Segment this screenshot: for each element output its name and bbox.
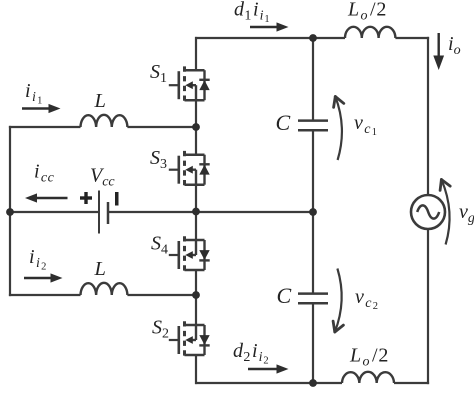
svg-text:vg: vg [459, 201, 474, 226]
svg-text:L: L [94, 258, 106, 280]
capacitor C (upper) [298, 121, 328, 131]
node B (S3-S4 junction) [192, 208, 200, 216]
wire right branch lower [427, 228, 429, 384]
wire top rail left segment [195, 37, 345, 39]
svg-text:C: C [276, 110, 291, 135]
current arrow i_i2 [24, 273, 63, 282]
wire bus S1 to node A [195, 100, 197, 127]
svg-text:icc: icc [34, 161, 55, 186]
wire bus node B to S4 [195, 212, 197, 241]
transistor S3 (MOSFET with body diode) [169, 151, 210, 189]
wire cap C1 to node E [312, 130, 314, 212]
svg-text:d1ii1: d1ii1 [234, 0, 270, 25]
battery minus tick [115, 192, 119, 206]
current arrow i_cc [25, 193, 68, 202]
svg-text:vc1: vc1 [354, 112, 378, 138]
svg-text:S3: S3 [150, 147, 167, 172]
wire bottom rail right segment [394, 382, 429, 384]
current arrow i_i1 [22, 104, 61, 113]
svg-text:ii2: ii2 [29, 246, 47, 273]
wire upper L to node A [127, 126, 196, 128]
svg-text:vc2: vc2 [355, 286, 379, 312]
wire bus node A to S3 [195, 127, 197, 155]
transistor S4 (MOSFET with body diode) [169, 236, 210, 274]
node A (S1-S3 junction) [192, 123, 200, 131]
node C (S4-S2 junction) [192, 291, 200, 299]
inductor L (lower) [81, 283, 128, 295]
capacitor C (lower) [298, 294, 328, 304]
svg-text:S4: S4 [151, 233, 168, 258]
wire bottom rail left segment [195, 382, 342, 384]
svg-text:Vcc: Vcc [90, 165, 115, 190]
wire node E to cap C2 [312, 212, 314, 294]
battery Vcc positive plate [98, 191, 100, 234]
ac source vg [411, 195, 445, 229]
wire top rail right segment [395, 37, 429, 39]
node left Vcc junction [6, 208, 14, 216]
svg-text:Lo/2: Lo/2 [347, 0, 387, 24]
voltage arrow v_c2 [333, 269, 343, 333]
wire left input lower [9, 294, 81, 296]
svg-text:io: io [448, 33, 461, 58]
wire bus S2 to bottom rail [195, 355, 197, 384]
wire Vcc right segment to node D [108, 211, 313, 213]
inductor L (upper) [81, 115, 128, 127]
wire bus S4 to node C [195, 270, 197, 295]
node bottom of capacitor leg [309, 379, 317, 387]
wire Vcc left segment [10, 211, 99, 213]
current arrow i_o [433, 33, 444, 70]
svg-text:C: C [277, 283, 292, 308]
transistor S1 (MOSFET with body diode) [169, 66, 210, 104]
wire bus node C to S2 [195, 295, 197, 325]
battery plus sign [80, 192, 92, 204]
svg-text:S1: S1 [150, 61, 167, 86]
wire node D to cap C1 [312, 38, 314, 121]
wire left vertical [9, 126, 11, 296]
voltage arrow v_c1 [334, 97, 344, 161]
svg-text:ii1: ii1 [25, 80, 43, 107]
wire bus drain S1 [195, 37, 197, 71]
svg-text:d2ii2: d2ii2 [233, 340, 269, 367]
svg-text:S2: S2 [152, 317, 169, 342]
wire cap C2 to bottom rail [312, 303, 314, 383]
voltage arrow v_g [440, 180, 450, 245]
node top of capacitor leg [309, 34, 317, 42]
battery Vcc negative plate [107, 202, 110, 224]
wire left input upper [9, 126, 81, 128]
node E (capacitor midpoint) [309, 208, 317, 216]
current arrow d1*i_i1 [250, 22, 289, 31]
inductor Lo/2 (top) [345, 27, 395, 38]
current arrow d2*i_i2 [248, 364, 289, 373]
transistor S2 (MOSFET with body diode) [169, 321, 210, 359]
wire right branch upper [427, 37, 429, 196]
svg-text:L: L [94, 90, 106, 112]
svg-text:Lo/2: Lo/2 [349, 345, 389, 370]
wire lower L to node C [127, 294, 196, 296]
wire bus S3 to node B [195, 185, 197, 213]
inductor Lo/2 (bottom) [342, 372, 394, 383]
